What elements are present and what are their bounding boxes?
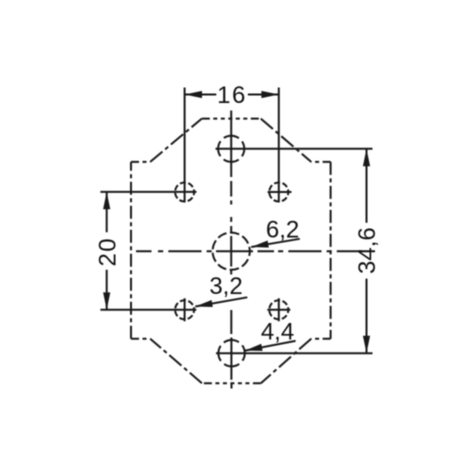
leader 6,2: line	[251, 239, 300, 247]
hole bottom (dia 4,4)	[218, 340, 244, 366]
leader 4,4: arrowhead	[245, 344, 263, 351]
dimension 34,6: extension line top (from top hole)	[216, 148, 373, 150]
dimension 34,6: extension line bottom (from bottom hole)	[216, 352, 373, 354]
hole lower-left (dia 3,2)	[175, 300, 194, 319]
leader 3,2: line	[195, 297, 247, 306]
dimension 20: extension line top (through upper-left hole)	[100, 191, 196, 193]
svg-text:3,2: 3,2	[209, 273, 242, 300]
dimension 20: dimension line segments	[106, 192, 108, 310]
hole top (dia 4,4 mounting)	[218, 136, 244, 162]
svg-text:16: 16	[217, 82, 247, 109]
horizontal centerline (dash-dot, solid through center hole)	[136, 250, 362, 252]
svg-text:20: 20	[94, 237, 121, 267]
leader 4,4: line	[245, 341, 296, 351]
hole lower-right (dia 3,2)	[269, 300, 288, 319]
svg-text:6,2: 6,2	[266, 217, 299, 244]
dimension 16: dimension line segments	[185, 94, 279, 96]
hole upper-right (dia 3,2)	[269, 183, 288, 202]
hole center (dia 6,2)	[213, 233, 250, 270]
leader 3,2: arrowhead	[195, 300, 213, 307]
dimension 20: arrowheads	[103, 192, 110, 310]
part outline (phantom dash-dot octagon with shoulders)	[131, 119, 331, 384]
svg-text:34,6: 34,6	[354, 227, 381, 274]
dimension 20: extension line bottom (through lower-left hole)	[100, 309, 196, 311]
crosshair tick lower-left hole vertical	[184, 298, 186, 321]
hole upper-left (dia 3,2)	[175, 183, 194, 202]
dimension 16: extension line left (through upper-left hole)	[184, 88, 186, 203]
crosshair tick upper-right hole	[268, 191, 292, 193]
crosshair tick lower-right hole	[267, 298, 290, 321]
dimension 16: extension line right (through upper-right hole)	[278, 88, 280, 203]
dimension 34,6: dimension line segments	[366, 149, 368, 353]
leader 6,2: arrowhead	[251, 241, 269, 248]
vertical centerline (dash-dot, solid through holes)	[230, 111, 232, 389]
svg-text:4,4: 4,4	[261, 318, 294, 345]
dimension 16: arrowheads	[185, 91, 279, 98]
dimension 34,6: arrowheads	[363, 149, 370, 353]
